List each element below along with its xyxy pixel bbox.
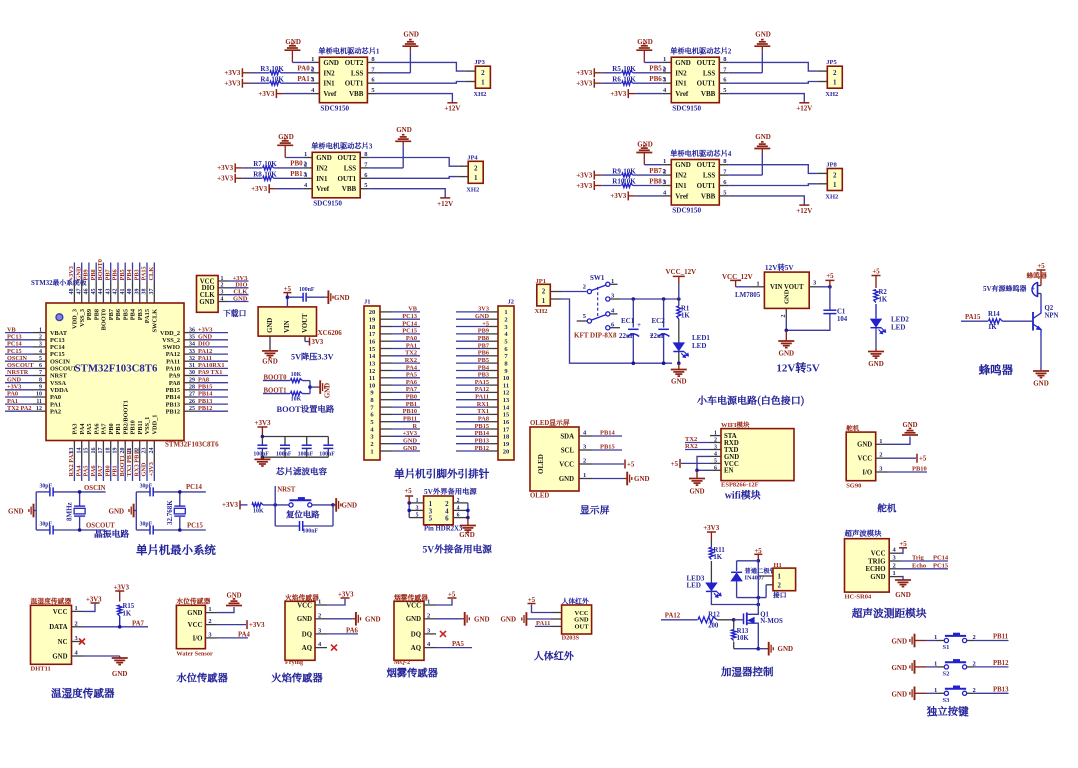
filter cap bus wires — [261, 435, 329, 459]
wire JP1 pin2 to SW — [561, 291, 587, 293]
svg-text:42: 42 — [113, 289, 119, 295]
connector JP3 box — [475, 66, 490, 88]
connector JP8 label — [826, 162, 837, 169]
water sensor pins — [187, 606, 217, 642]
header J2 pins and labels — [456, 306, 510, 456]
motor driver chip 2 title — [670, 47, 732, 57]
+3V3 port (water) — [217, 620, 265, 629]
VCC_12V power port — [666, 268, 697, 299]
net label PB12 (S2) — [993, 660, 1009, 667]
ground (LED2) — [868, 348, 884, 368]
svg-text:4: 4 — [221, 296, 224, 302]
svg-text:2: 2 — [663, 66, 666, 73]
OLED pins — [559, 430, 592, 484]
svg-text:12V转5V: 12V转5V — [765, 263, 795, 273]
svg-text:PA11: PA11 — [166, 358, 180, 365]
+12V power port (U3) — [437, 198, 453, 208]
svg-text:PB10: PB10 — [130, 420, 137, 434]
wire OLED SDA — [592, 430, 622, 437]
svg-text:IN1: IN1 — [316, 175, 328, 183]
svg-text:1K: 1K — [879, 297, 888, 304]
svg-text:R14: R14 — [988, 311, 1000, 318]
svg-text:13: 13 — [503, 397, 510, 404]
svg-text:STM32F103C8T6: STM32F103C8T6 — [165, 441, 219, 449]
pin numbers U4 left — [663, 158, 667, 196]
net label PB7 (U4) — [649, 167, 666, 175]
flame sensor pins — [297, 599, 327, 653]
ground G1_2 — [376, 31, 419, 73]
svg-text:15: 15 — [503, 412, 510, 419]
motor driver chip 3 title — [311, 142, 373, 152]
svg-text:26: 26 — [189, 399, 195, 405]
svg-text:H1: H1 — [774, 562, 782, 569]
svg-text:独立按键: 独立按键 — [926, 704, 969, 719]
label Pin HDR2X3 — [424, 526, 463, 533]
connector JP5 XH2 label — [825, 91, 838, 98]
svg-text:2: 2 — [370, 441, 373, 448]
MCU right pin wires and net labels — [184, 326, 228, 412]
label 舵机 small — [845, 424, 860, 433]
svg-text:DIO: DIO — [198, 341, 210, 348]
svg-text:47: 47 — [76, 289, 82, 295]
svg-text:3V3: 3V3 — [312, 339, 324, 346]
svg-text:+5: +5 — [528, 597, 536, 604]
svg-text:PB7: PB7 — [649, 167, 662, 175]
ground (backup) — [459, 526, 476, 540]
svg-text:PA0: PA0 — [7, 391, 18, 398]
svg-text:VCC: VCC — [406, 602, 421, 609]
svg-text:RXD: RXD — [724, 440, 739, 447]
svg-text:GND: GND — [637, 140, 653, 148]
switch SW1 dashed link — [597, 287, 599, 318]
svg-text:SDA: SDA — [560, 434, 574, 441]
svg-text:5V外接备用电源: 5V外接备用电源 — [423, 542, 493, 556]
svg-text:Vref: Vref — [323, 90, 337, 98]
regulator U3 XC6206 box — [258, 307, 316, 336]
svg-text:LSS: LSS — [351, 69, 364, 77]
svg-text:+5: +5 — [627, 462, 635, 469]
svg-text:接口: 接口 — [773, 590, 787, 600]
label 普通二极管 — [745, 566, 777, 575]
svg-text:15: 15 — [84, 448, 90, 454]
svg-text:17: 17 — [503, 426, 510, 433]
net label PB5 (U2) — [649, 65, 666, 73]
svg-text:+3V3: +3V3 — [576, 69, 593, 77]
svg-text:GND: GND — [634, 475, 650, 483]
ground port (S3) — [891, 687, 936, 701]
resistor R15 1K — [118, 603, 135, 627]
OLED rotated name — [537, 454, 545, 474]
svg-text:44: 44 — [98, 289, 104, 295]
svg-text:+3V3: +3V3 — [224, 80, 241, 88]
svg-text:VCC: VCC — [297, 602, 312, 609]
connector JP4 pins — [458, 164, 478, 182]
svg-text:29: 29 — [189, 377, 195, 383]
svg-text:VBAT: VBAT — [50, 330, 68, 337]
wire Q2 emitter to gnd — [1040, 337, 1042, 370]
svg-text:水位传感器: 水位传感器 — [175, 596, 210, 606]
+5 port (PIR) — [528, 597, 551, 613]
svg-text:R1: R1 — [681, 306, 690, 313]
wire VBB to +12V (U1) — [376, 94, 452, 103]
svg-text:NRSTR: NRSTR — [7, 369, 29, 376]
wire VBB to +12V (U4) — [728, 196, 804, 205]
svg-text:2: 2 — [303, 161, 306, 168]
svg-text:GND: GND — [870, 574, 885, 581]
svg-text:PA7: PA7 — [101, 423, 108, 434]
svg-text:AQ: AQ — [411, 645, 421, 652]
+3V3 power port (U3 Vref) — [251, 184, 303, 193]
svg-text:2: 2 — [75, 620, 78, 627]
title 复位电路 — [286, 509, 320, 521]
pin numbers U2 left — [663, 56, 667, 94]
+3V3 power port (U2 in2) — [576, 79, 594, 88]
svg-text:TX2: TX2 — [405, 350, 417, 357]
title 单片机最小系统 — [136, 542, 216, 558]
+12V power port (U2) — [796, 103, 812, 113]
svg-text:PB5: PB5 — [649, 65, 662, 73]
svg-text:11: 11 — [369, 375, 375, 382]
svg-text:+3V3: +3V3 — [576, 80, 593, 88]
switch contact 3 — [606, 293, 620, 302]
title 烟雾传感器 — [387, 665, 439, 680]
svg-text:PB12: PB12 — [475, 445, 489, 452]
svg-text:1: 1 — [833, 79, 837, 87]
cap EC2 wires — [662, 299, 666, 365]
svg-text:PA0: PA0 — [297, 65, 310, 73]
svg-text:STM32F103C8T6: STM32F103C8T6 — [75, 363, 158, 375]
smoke sensor box — [394, 601, 424, 660]
svg-text:R15: R15 — [123, 603, 135, 610]
net label PB13 (S3) — [993, 686, 1009, 693]
svg-text:R8: R8 — [253, 171, 262, 179]
label 5V有源蜂鸣器 — [983, 284, 1027, 294]
svg-text:PB1: PB1 — [406, 401, 417, 408]
svg-text:GND: GND — [342, 501, 358, 509]
resistor R5 10K — [612, 65, 662, 75]
regulator VOUT to 3V3 — [305, 336, 324, 346]
svg-text:2: 2 — [833, 172, 837, 180]
XC6206 label — [318, 329, 343, 337]
svg-text:BOOT0: BOOT0 — [97, 259, 104, 280]
svg-text:PB13: PB13 — [166, 401, 180, 408]
svg-text:8: 8 — [39, 377, 42, 383]
svg-text:OSCIN: OSCIN — [50, 358, 70, 365]
+3V3 power port (U4 Vref) — [610, 191, 662, 200]
svg-text:20: 20 — [120, 448, 126, 454]
wire VBB to +12V (U2) — [728, 94, 804, 103]
wire VBB to +12V (U3) — [369, 189, 445, 198]
svg-text:1: 1 — [427, 599, 430, 606]
svg-text:PB12: PB12 — [993, 660, 1009, 667]
svg-text:+3V3: +3V3 — [403, 430, 417, 437]
svg-text:2: 2 — [427, 612, 430, 619]
+5 power port (backup) — [404, 488, 413, 503]
svg-text:SDC9150: SDC9150 — [672, 207, 701, 215]
svg-text:GND: GND — [403, 445, 417, 452]
svg-text:XH2: XH2 — [535, 308, 548, 315]
svg-text:PA2: PA2 — [50, 408, 61, 415]
svg-text:GND: GND — [689, 489, 704, 496]
+3V3 power port (U4 in2) — [576, 181, 594, 190]
no-connect X (DHT11 NC) — [79, 639, 85, 645]
svg-text:PA11: PA11 — [475, 394, 489, 401]
svg-text:PA12: PA12 — [475, 386, 489, 393]
svg-text:22uF: 22uF — [650, 332, 665, 340]
svg-text:VSS_2: VSS_2 — [162, 337, 180, 344]
label Frying — [285, 659, 304, 666]
svg-text:DATA: DATA — [49, 624, 67, 631]
label 超声波模块 — [844, 528, 883, 539]
svg-text:+: + — [637, 321, 641, 329]
DHT11 box — [31, 605, 72, 664]
svg-text:GND: GND — [199, 299, 214, 306]
svg-text:GND: GND — [1033, 380, 1049, 388]
resistor R11 1K — [709, 547, 725, 583]
ground (ultrasonic) — [895, 580, 911, 599]
svg-text:PB5: PB5 — [122, 309, 129, 320]
svg-text:1K: 1K — [713, 554, 722, 561]
pin numbers U3 left — [304, 151, 308, 189]
svg-text:芯片滤波电容: 芯片滤波电容 — [276, 466, 328, 478]
resistor R12 200 — [698, 611, 734, 629]
+5 port (smoke) — [436, 592, 457, 606]
pin stubs U2 — [662, 62, 728, 93]
resistor R10 10K — [612, 178, 662, 188]
title 5V降压3.3V — [291, 352, 334, 363]
svg-text:PB14: PB14 — [600, 430, 616, 437]
svg-text:EC2: EC2 — [652, 317, 666, 325]
svg-text:14: 14 — [369, 353, 376, 360]
diode D1 IN4007 — [731, 570, 742, 598]
svg-text:1: 1 — [75, 605, 78, 612]
resistor R2 1K — [874, 289, 888, 319]
svg-text:EC1: EC1 — [621, 317, 635, 325]
net Trig PC14 — [901, 555, 949, 562]
svg-text:+3V3: +3V3 — [7, 384, 21, 391]
ground port (regulator cap) — [325, 290, 349, 304]
servo pins — [857, 438, 887, 477]
svg-text:SCL: SCL — [561, 448, 575, 455]
svg-text:+3V3: +3V3 — [68, 266, 75, 280]
svg-text:10K: 10K — [291, 372, 302, 378]
svg-text:烟雾传感器: 烟雾传感器 — [387, 665, 439, 680]
resistor R9 10K — [612, 167, 662, 177]
wire VOUT to +5 — [809, 280, 832, 289]
svg-text:21: 21 — [127, 448, 133, 454]
svg-text:PC14: PC14 — [186, 484, 202, 491]
svg-text:GND: GND — [316, 154, 332, 162]
+12V power port (U4) — [796, 205, 812, 215]
svg-text:2: 2 — [778, 583, 782, 590]
svg-text:3: 3 — [39, 342, 42, 348]
svg-text:PA10RX1: PA10RX1 — [198, 362, 224, 369]
LED3 — [687, 575, 722, 598]
transistor Q2 NPN — [1033, 305, 1059, 337]
svg-text:GND: GND — [559, 476, 574, 483]
svg-text:22uF: 22uF — [619, 332, 634, 340]
svg-text:Trig: Trig — [912, 555, 925, 562]
ground port (smoke) — [436, 612, 490, 626]
svg-text:AQ: AQ — [302, 645, 312, 652]
svg-text:IN1: IN1 — [323, 80, 335, 88]
button S3 — [934, 686, 1009, 704]
svg-text:下载口: 下载口 — [223, 308, 247, 319]
svg-text:PB7: PB7 — [108, 309, 115, 320]
svg-text:PA6: PA6 — [93, 423, 100, 434]
capacitor EC2 22uF — [650, 317, 670, 340]
+3V3 port (R15 top) — [114, 585, 130, 602]
label 5V外界备用电源 — [424, 487, 477, 497]
svg-text:PB4: PB4 — [126, 268, 133, 280]
svg-text:PB14: PB14 — [475, 430, 490, 437]
svg-text:PA9 TX1: PA9 TX1 — [198, 369, 222, 376]
svg-text:VSSA: VSSA — [50, 380, 67, 387]
svg-text:2: 2 — [474, 164, 478, 172]
svg-text:10K: 10K — [264, 160, 277, 168]
svg-text:PA4: PA4 — [238, 631, 251, 638]
pin numbers U1 right — [371, 56, 375, 94]
svg-text:+3V3: +3V3 — [224, 69, 241, 77]
svg-text:PB1: PB1 — [290, 170, 303, 178]
servo box — [846, 432, 876, 481]
+5 power port (OLED) — [592, 460, 635, 469]
svg-text:OUT1: OUT1 — [697, 80, 716, 88]
svg-text:PB3: PB3 — [133, 269, 140, 280]
svg-text:DHT11: DHT11 — [31, 666, 51, 673]
svg-text:VIN: VIN — [770, 284, 783, 291]
svg-text:2: 2 — [208, 618, 211, 625]
svg-text:10K: 10K — [623, 167, 636, 175]
svg-text:GND: GND — [902, 422, 917, 429]
svg-text:PB5: PB5 — [478, 357, 489, 364]
connector JP1 box — [537, 284, 551, 306]
net label PA6 (flame) — [327, 627, 359, 634]
svg-text:Vref: Vref — [675, 90, 689, 98]
svg-text:PB0: PB0 — [406, 394, 417, 401]
wire OLED SCL — [592, 444, 622, 451]
svg-text:OSCIN: OSCIN — [84, 485, 106, 492]
svg-text:30pF: 30pF — [40, 483, 53, 489]
svg-text:37: 37 — [149, 289, 155, 295]
part number SDC9150 (chip 2) — [672, 104, 701, 112]
svg-text:34: 34 — [189, 342, 195, 348]
svg-text:10K: 10K — [623, 178, 636, 186]
+5 port (ultrasonic) — [899, 541, 907, 553]
+3V3 power port (U1 in2) — [224, 79, 242, 88]
switch SW1 pole B — [577, 308, 618, 324]
+5 power port (regulator) — [283, 286, 291, 297]
svg-text:BOOT0: BOOT0 — [101, 309, 108, 330]
svg-text:VCC: VCC — [857, 456, 872, 463]
header J2 box — [498, 306, 514, 460]
part number SDC9150 (chip 4) — [672, 207, 701, 215]
svg-text:PA3: PA3 — [72, 423, 79, 434]
ground (water) — [226, 593, 242, 606]
svg-text:1: 1 — [481, 79, 485, 87]
flame sensor box — [285, 601, 315, 660]
capacitor 30pF top (32k) — [140, 483, 154, 496]
svg-text:+: + — [1032, 287, 1036, 293]
svg-text:BOOT1: BOOT1 — [119, 455, 126, 476]
svg-text:PB8: PB8 — [90, 269, 97, 280]
svg-text:JP4: JP4 — [467, 154, 478, 161]
svg-text:SWIO: SWIO — [163, 344, 180, 351]
svg-text:LSS: LSS — [703, 69, 716, 77]
svg-text:PB9: PB9 — [86, 309, 93, 320]
svg-text:9: 9 — [39, 385, 42, 391]
svg-text:PB9: PB9 — [83, 269, 90, 280]
svg-text:XH2: XH2 — [466, 186, 479, 193]
svg-text:GND: GND — [868, 360, 884, 368]
svg-text:PB12: PB12 — [166, 408, 180, 415]
svg-text:100nF: 100nF — [276, 452, 292, 458]
label IN4007 — [745, 575, 765, 582]
svg-text:TX2: TX2 — [685, 436, 697, 443]
+3V3 power port (U4 in1) — [576, 171, 594, 180]
wire OUT1 to JP8 pin1 — [728, 184, 817, 186]
svg-text:24: 24 — [149, 448, 155, 454]
part number SDC9150 (chip 3) — [313, 200, 342, 208]
svg-text:2: 2 — [583, 284, 586, 291]
title 芯片滤波电容 — [276, 466, 328, 478]
svg-text:PA8: PA8 — [198, 376, 209, 383]
svg-text:BOOT设置电路: BOOT设置电路 — [277, 403, 335, 415]
svg-text:RX2: RX2 — [685, 443, 698, 450]
net label OSCOUT — [86, 523, 115, 530]
+3V3 port (humidifier) — [703, 524, 720, 548]
net label OSCIN — [84, 485, 106, 492]
svg-text:PC15: PC15 — [187, 523, 203, 530]
svg-text:OUT1: OUT1 — [338, 175, 357, 183]
svg-text:Vref: Vref — [675, 192, 689, 200]
svg-text:I/O: I/O — [862, 469, 872, 476]
svg-text:1: 1 — [370, 448, 373, 455]
svg-text:SW1: SW1 — [590, 274, 605, 282]
junction R12 gate — [732, 618, 736, 622]
svg-text:DQ: DQ — [302, 631, 312, 638]
svg-text:1: 1 — [714, 431, 717, 437]
svg-text:R9: R9 — [612, 167, 621, 175]
svg-text:35: 35 — [189, 334, 195, 340]
svg-text:10K: 10K — [264, 171, 277, 179]
+12V power port (U1) — [444, 103, 460, 113]
svg-text:PB13: PB13 — [993, 686, 1009, 693]
label HC-SR04 — [845, 594, 872, 601]
svg-text:4: 4 — [714, 451, 717, 457]
water GND wire — [217, 607, 234, 613]
svg-text:36: 36 — [189, 327, 195, 333]
svg-text:PB15: PB15 — [198, 384, 212, 391]
ground G3_2 — [369, 126, 412, 168]
svg-text:+5: +5 — [919, 456, 927, 463]
svg-text:22: 22 — [134, 448, 140, 454]
svg-text:LED: LED — [692, 342, 706, 350]
svg-text:15: 15 — [369, 346, 376, 353]
svg-text:JP3: JP3 — [474, 59, 485, 66]
svg-text:1: 1 — [208, 606, 211, 613]
svg-text:GND: GND — [474, 615, 490, 623]
net label PA11 (PIR) — [535, 620, 551, 627]
svg-text:16: 16 — [503, 419, 510, 426]
MCU part text — [75, 363, 158, 375]
svg-text:+3V3: +3V3 — [610, 90, 627, 98]
svg-text:GND: GND — [724, 454, 739, 461]
svg-text:+3V3: +3V3 — [217, 175, 234, 183]
svg-text:PB15: PB15 — [166, 387, 180, 394]
svg-text:R6: R6 — [612, 75, 621, 83]
+3V3 power port (U3 in1) — [217, 163, 235, 172]
